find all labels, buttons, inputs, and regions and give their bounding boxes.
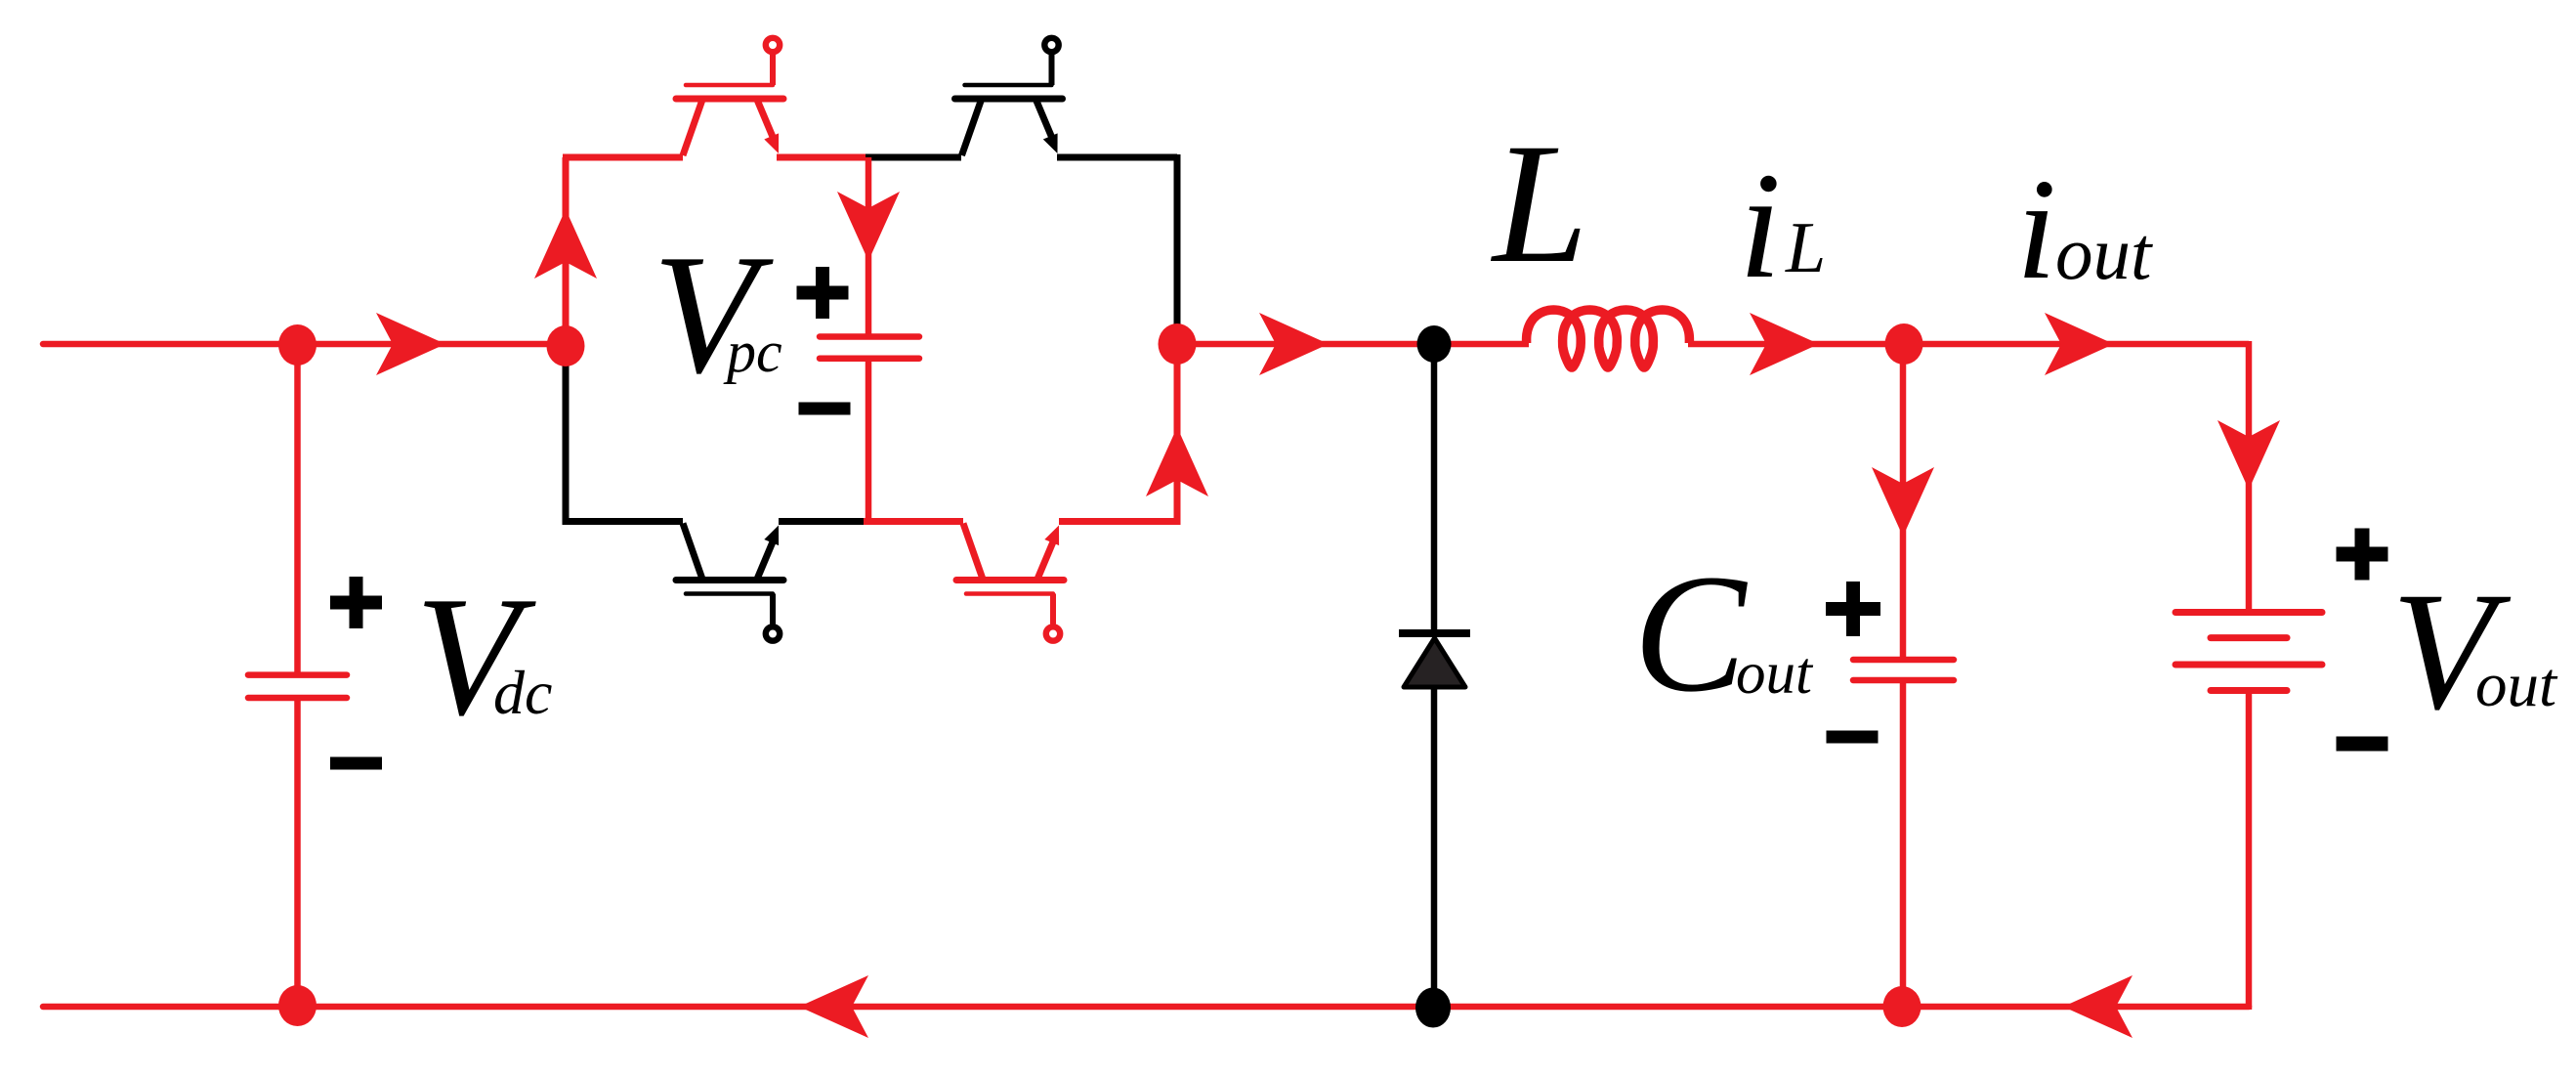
arrow current down on Cout branch: [1872, 467, 1934, 537]
wire top rail red segment left: [563, 154, 683, 161]
node junction dot diode top (black): [1417, 325, 1452, 363]
wire inductor to Cout node: [1688, 341, 1904, 348]
svg-text:dc: dc: [493, 658, 552, 727]
wire Cout branch upper: [1900, 344, 1907, 660]
arrow current left on bus left: [799, 975, 868, 1038]
wire bottom rail black segment left: [563, 518, 683, 525]
transistor Q4 (IGBT bottom-right, red): [956, 577, 1064, 583]
label minus Vpc: [799, 403, 851, 415]
svg-text:out: out: [1736, 641, 1814, 707]
arrow current right on top main wire: [376, 313, 445, 375]
label minus Cout: [1827, 731, 1879, 744]
arrow current down on right edge arm: [2217, 420, 2280, 490]
node junction dot bus left: [278, 985, 317, 1026]
wire left bridge arm upper (red): [563, 157, 570, 344]
wire bottom rail red segment right: [1059, 518, 1180, 525]
svg-text:i: i: [1739, 141, 1781, 310]
arrow current up on right bridge arm: [1146, 427, 1208, 496]
svg-text:out: out: [2055, 211, 2153, 295]
svg-text:i: i: [2016, 150, 2056, 310]
wire bottom bus: [43, 1004, 2249, 1011]
wire right bridge arm lower (red): [1174, 344, 1181, 525]
wire bottom rail red segment: [864, 518, 963, 525]
wire Vdc branch upper: [294, 344, 301, 675]
wire right edge arm upper: [2246, 341, 2253, 612]
arrow current up on left bridge arm: [534, 209, 597, 279]
node junction dot bridge input: [547, 325, 585, 366]
label plus Vpc: [797, 286, 849, 300]
inductor L: [1527, 310, 1690, 367]
wire Vdc branch lower: [294, 698, 301, 1007]
label minus Vout: [2337, 737, 2388, 752]
diode D: [1399, 629, 1470, 637]
transistor Q2 (IGBT top-right, black): [955, 96, 1063, 103]
arrow current right after inductor: [1750, 313, 1819, 375]
node junction dot diode bottom (black): [1415, 988, 1451, 1028]
svg-text:L: L: [1490, 108, 1588, 299]
wire middle cap branch upper: [866, 157, 872, 336]
wire top main left segment: [43, 341, 566, 348]
svg-text:C: C: [1633, 540, 1748, 727]
label plus Cout: [1826, 602, 1880, 616]
wire top rail black segment right: [1057, 154, 1177, 161]
wire diode branch lower (black): [1431, 684, 1438, 1007]
label plus Vout: [2337, 547, 2388, 562]
wire diode node to inductor: [1434, 341, 1529, 348]
arrow current left on bus right: [2063, 975, 2133, 1038]
capacitor Vdc: [248, 671, 347, 678]
wire right bridge arm upper (black): [1174, 154, 1181, 332]
arrow current right before corner: [2045, 313, 2114, 375]
node junction dot bridge output: [1159, 323, 1197, 365]
arrow current down on Vpc branch: [837, 192, 900, 261]
wire top rail black segment: [866, 154, 961, 161]
svg-text:L: L: [1785, 208, 1826, 288]
wire bottom rail black segment mid: [779, 518, 866, 525]
wire Cout node to right corner: [1904, 341, 2249, 348]
wire right edge arm lower: [2246, 691, 2253, 1010]
transistor Q1 (IGBT top-left, red): [676, 96, 783, 103]
wire diode branch upper (black): [1431, 344, 1438, 633]
node junction dot top-left: [278, 324, 317, 366]
wire middle cap branch lower: [866, 359, 872, 521]
node junction dot Cout bottom: [1883, 986, 1921, 1027]
capacitor Vpc: [820, 333, 919, 340]
label minus Vdc: [330, 757, 382, 770]
label plus Vdc: [330, 596, 382, 610]
capacitor Cout: [1853, 657, 1954, 664]
wire Cout branch lower: [1900, 680, 1907, 1007]
transistor Q3 (IGBT bottom-left, black): [676, 577, 783, 583]
wire output node to diode node: [1177, 341, 1434, 348]
node junction dot Cout top: [1885, 323, 1923, 365]
battery Vout: [2175, 609, 2322, 616]
wire top rail red segment mid: [777, 154, 868, 161]
wire left bridge arm lower (black): [563, 352, 570, 525]
svg-text:pc: pc: [723, 320, 782, 384]
arrow current right after bridge: [1259, 313, 1329, 375]
svg-text:out: out: [2475, 650, 2558, 720]
